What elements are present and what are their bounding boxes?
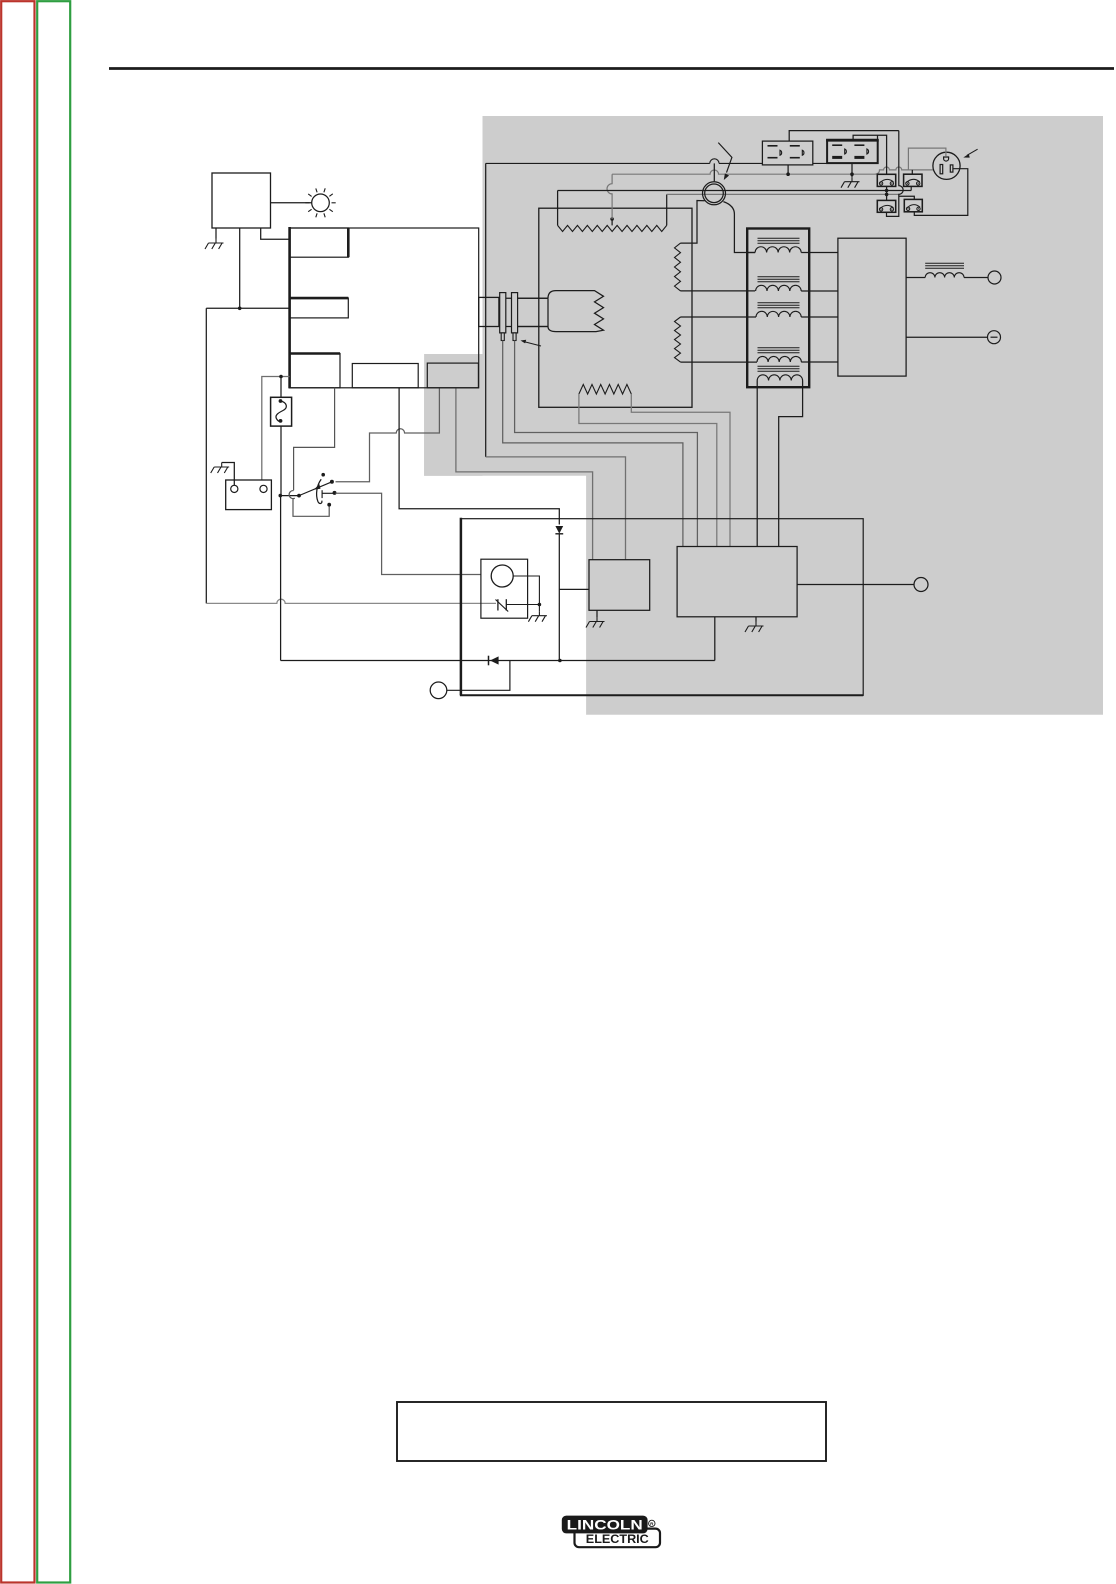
plug pointer arrow — [967, 149, 978, 155]
wire B1 down to node — [239, 228, 241, 308]
brush lead upper — [499, 297, 548, 299]
wire D2 down — [558, 534, 560, 661]
left rail vertical — [205, 308, 207, 603]
reactor coil 5 — [757, 375, 802, 381]
plug hot wire — [908, 148, 946, 170]
control pcb ground — [755, 617, 757, 622]
wire node to switch common — [280, 495, 299, 497]
CT pointer arrow — [718, 143, 732, 173]
w2 wire to pcb2 — [579, 394, 717, 547]
stator winding B — [675, 317, 681, 362]
CT to reactor wire — [723, 202, 755, 253]
battery ground wire — [222, 463, 235, 486]
gray backdrop region — [424, 116, 1103, 715]
wire to fuse — [280, 377, 282, 398]
engine box — [290, 228, 479, 388]
battery positive wire — [262, 377, 290, 486]
receptacle ground — [841, 177, 860, 188]
hour meter box B1 — [212, 173, 271, 228]
aux winding W2 — [579, 384, 631, 394]
R2 neutral stem — [851, 163, 853, 177]
brush pin P2 — [512, 293, 518, 333]
W1 left lead to bus B — [557, 191, 559, 226]
points loop — [513, 576, 539, 611]
wire fuse to switch node — [280, 426, 282, 496]
bus A 115V feed — [612, 167, 940, 174]
wire T3 to switch — [294, 388, 335, 490]
reactor coil 4 — [757, 356, 801, 362]
junction dot switch node — [279, 494, 283, 498]
diode D2 — [555, 526, 563, 534]
positive output terminal — [988, 271, 1001, 284]
svg-text:LINCOLN: LINCOLN — [567, 1517, 643, 1532]
reactor coil 2 — [756, 285, 802, 291]
wire hour meter to lamp — [271, 202, 312, 204]
wire B1 to tab T1 — [261, 228, 290, 239]
battery — [226, 480, 272, 510]
connector J1 — [479, 297, 499, 326]
brush arrow — [524, 342, 541, 346]
magneto kill wire — [206, 599, 496, 603]
circuit breaker CB1 — [877, 174, 895, 186]
module ground — [528, 611, 547, 622]
W1 center tap — [611, 219, 613, 225]
rotor field winding — [518, 298, 548, 326]
twist lock receptacle — [933, 152, 960, 179]
terminal tab T4 — [352, 364, 418, 388]
R2 supply wire — [853, 135, 887, 174]
rectifier bridge — [838, 238, 906, 376]
bus B — [558, 190, 912, 192]
fuse F1 — [271, 397, 292, 426]
terminal tab T1 — [290, 228, 349, 257]
flash terminal — [430, 682, 447, 699]
idle pcb — [589, 560, 650, 611]
reactor coil 3 — [756, 311, 801, 317]
w5 wire to idle pcb — [486, 457, 626, 560]
CB4 top link — [899, 196, 915, 199]
winding A bottom lead — [681, 290, 756, 292]
negative output terminal — [988, 331, 1001, 344]
w4 brush wire to pcb2 — [503, 341, 683, 547]
terminal tab T5 — [427, 363, 478, 388]
W1 right lead to bus C — [666, 194, 668, 225]
output sense wire — [797, 584, 914, 586]
control pcb bottom wire — [714, 617, 716, 661]
circuit breaker CB2 — [904, 174, 922, 186]
battery ground — [211, 463, 230, 474]
engine box bold left edge — [288, 227, 291, 388]
red margin bar — [1, 1, 34, 1582]
green margin bar — [37, 1, 70, 1582]
junction dot fuse tap — [279, 375, 283, 379]
engine enclosure box — [461, 519, 863, 696]
enclosure bold left edge — [460, 518, 463, 696]
output choke — [906, 277, 925, 279]
winding B top lead — [681, 316, 757, 318]
start wire to starter — [336, 493, 481, 574]
wire left rail to tab T2 — [206, 307, 289, 309]
run wire to engine — [336, 388, 440, 482]
sense terminal — [914, 578, 928, 592]
w1 wire to pcb2 — [631, 394, 730, 547]
stator winding A — [675, 243, 681, 291]
w3 brush wire to pcb2 — [515, 341, 698, 547]
flash terminal wire — [447, 661, 510, 691]
wire T4 down — [399, 388, 559, 525]
switch start loop — [293, 499, 329, 516]
winding B bottom lead — [681, 361, 758, 363]
ground below hour meter — [215, 228, 217, 239]
wire D2 to pcb1 — [559, 588, 589, 590]
ignition module box — [481, 559, 528, 618]
brush pin P1 — [500, 293, 506, 333]
svg-text:ELECTRIC: ELECTRIC — [586, 1532, 649, 1546]
charge lamp — [312, 194, 330, 212]
duplex receptacle R1 — [762, 141, 812, 165]
lincoln electric logo — [562, 1516, 660, 1548]
coil5 left lead to pcb2 — [756, 381, 758, 547]
field diode D1 — [281, 660, 715, 662]
ignition switch S1 — [297, 494, 301, 498]
circuit breaker CB4 — [904, 199, 922, 211]
center tap riser — [607, 174, 612, 219]
aux winding W1 — [558, 225, 667, 231]
terminal tab T3 — [290, 354, 340, 388]
pcb sense wire long — [486, 162, 878, 164]
negative output wire — [906, 336, 987, 338]
R1 feed drop — [887, 131, 904, 217]
bus C — [667, 193, 899, 195]
CB2 top stem — [911, 170, 913, 174]
junction dot — [238, 307, 242, 311]
CT feed wire — [713, 163, 715, 181]
current transformer CT1 — [703, 182, 726, 205]
idle pcb ground — [596, 610, 598, 617]
top rule — [109, 67, 1114, 70]
circuit breaker CB3 — [877, 200, 895, 212]
wire fuse node down — [280, 496, 282, 661]
w6 wire engine to idle pcb — [456, 388, 593, 560]
enclosure bold bottom edge — [460, 694, 863, 696]
points P — [497, 599, 499, 610]
reactor coil 1 — [755, 247, 801, 253]
coil5 right lead to pcb2 — [779, 381, 803, 547]
winding A top lead — [681, 201, 705, 244]
duplex receptacle R2 — [827, 140, 878, 163]
starter motor — [491, 565, 513, 587]
terminal tab T2 — [290, 298, 349, 318]
CB1-CB3 riser — [886, 186, 888, 200]
R1 supply wire — [789, 131, 899, 142]
alternator box — [539, 208, 692, 407]
reactor box — [747, 229, 809, 388]
R1 neutral stem — [787, 165, 789, 174]
revision box — [397, 1402, 826, 1461]
brush lead lower — [499, 326, 548, 328]
plug right wire — [914, 169, 968, 216]
control pcb — [677, 547, 797, 617]
